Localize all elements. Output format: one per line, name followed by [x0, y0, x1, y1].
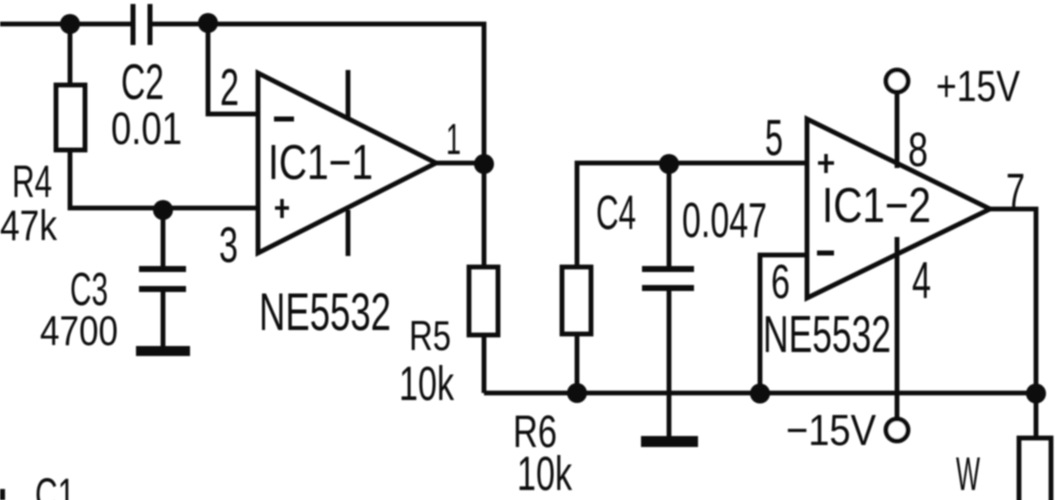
svg-text:3: 3 — [219, 217, 238, 273]
node junction output IC1-1 — [474, 154, 494, 174]
svg-text:0.047: 0.047 — [682, 194, 767, 248]
node junction R6 bottom — [567, 383, 587, 403]
wire C4 to ground — [667, 291, 672, 436]
svg-text:−15V: −15V — [786, 406, 877, 455]
wire R6 top rail to pin 5 — [577, 163, 807, 267]
node junction output IC1-2 — [1026, 384, 1046, 404]
terminal +15V — [886, 70, 908, 92]
wire input rail left — [0, 22, 132, 27]
capacitor C3 — [139, 269, 186, 289]
power pin tick top IC1-1 — [346, 70, 351, 118]
wire R4 branch down — [68, 24, 73, 85]
node junction C2 left — [60, 14, 80, 34]
resistor R6 — [562, 267, 591, 334]
capacitor C4 — [642, 269, 694, 288]
resistor W — [1019, 438, 1051, 500]
wire output pin 1 — [436, 161, 484, 166]
svg-text:47k: 47k — [0, 202, 57, 250]
wire C3 to ground — [161, 292, 166, 346]
svg-text:10k: 10k — [399, 358, 455, 411]
svg-text:0.01: 0.01 — [111, 103, 182, 154]
capacitor C2 — [133, 4, 150, 45]
svg-text:6: 6 — [771, 256, 790, 309]
svg-text:C1: C1 — [35, 469, 75, 500]
wire output down to R5 — [482, 163, 487, 267]
wire to resistor W — [1034, 393, 1039, 438]
wire bottom rail — [484, 391, 1036, 396]
wire pin 2 — [208, 24, 258, 114]
minus IC1-2 pin6 — [817, 251, 834, 256]
wire pin 4 power — [895, 237, 900, 418]
node junction pin6 bottom — [750, 384, 770, 404]
svg-text:IC1−2: IC1−2 — [822, 179, 931, 233]
wire pin 6 — [760, 255, 807, 393]
wire R5 to bottom rail — [482, 335, 487, 393]
svg-text:4700: 4700 — [40, 307, 118, 354]
terminal -15V — [886, 419, 908, 441]
op-amp IC1-1 — [258, 73, 436, 253]
svg-text:NE5532: NE5532 — [763, 306, 891, 364]
svg-text:R4: R4 — [12, 156, 52, 207]
svg-text:8: 8 — [908, 124, 928, 177]
svg-text:1: 1 — [446, 115, 461, 164]
wire R4 to node — [70, 150, 258, 208]
svg-text:R5: R5 — [409, 312, 451, 359]
svg-text:C4: C4 — [596, 187, 636, 240]
stub bottom left corner — [0, 489, 5, 500]
svg-text:W: W — [956, 447, 980, 500]
ground C4 — [641, 436, 698, 447]
svg-text:7: 7 — [1006, 165, 1025, 218]
svg-text:+15V: +15V — [936, 62, 1021, 111]
wire top rail to feedback corner — [150, 24, 484, 163]
svg-text:10k: 10k — [517, 448, 573, 500]
svg-text:4: 4 — [912, 252, 931, 310]
node junction C4 top — [659, 154, 679, 174]
power pin tick bottom IC1-1 — [346, 210, 351, 256]
wire C3 branch — [161, 208, 166, 266]
svg-text:IC1−1: IC1−1 — [268, 136, 373, 190]
resistor R5 — [469, 267, 498, 335]
svg-text:NE5532: NE5532 — [259, 283, 391, 342]
svg-text:2: 2 — [220, 59, 239, 117]
ground C3 — [136, 346, 190, 356]
svg-text:C2: C2 — [121, 54, 164, 110]
plus IC1-1 pin3 — [275, 199, 289, 218]
svg-text:5: 5 — [765, 109, 783, 166]
resistor R4 — [56, 85, 85, 150]
wire R6 bottom — [575, 334, 580, 393]
node junction C2 right — [198, 13, 218, 33]
wire pin 8 power — [895, 93, 900, 168]
wire output pin 7 — [990, 209, 1036, 393]
op-amp IC1-2 — [807, 119, 990, 298]
wire C4 top — [667, 163, 672, 266]
minus IC1-1 pin2 — [274, 117, 294, 122]
node junction pin3 — [153, 200, 173, 220]
plus IC1-2 pin5 — [818, 154, 834, 173]
